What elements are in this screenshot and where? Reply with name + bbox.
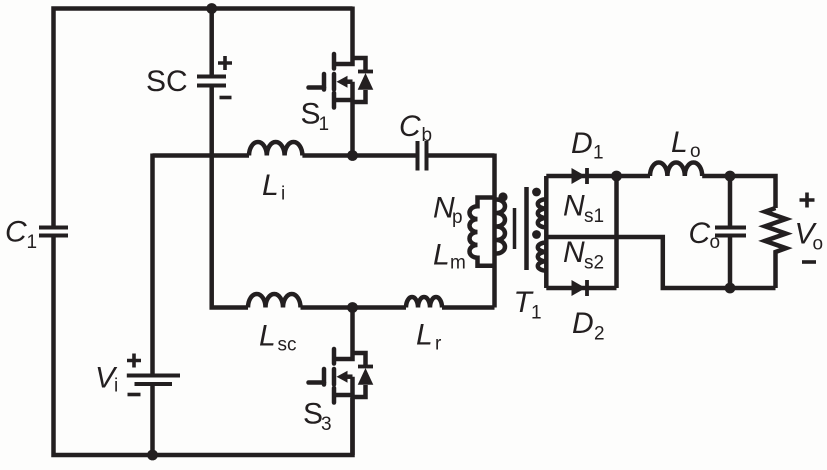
svg-text:L: L	[416, 319, 433, 352]
node D1 / link / Lo	[611, 171, 622, 182]
svg-text:D: D	[572, 307, 594, 340]
wire primary vertical	[492, 154, 497, 308]
dot primary polarity	[498, 192, 507, 201]
inductor Li	[249, 142, 302, 155]
dot Ns1 polarity	[532, 188, 541, 197]
inductor Lr	[406, 297, 442, 308]
wire D1-D2 link	[614, 176, 619, 288]
wire left line lower	[54, 238, 353, 456]
svg-text:C: C	[5, 216, 27, 249]
wire Vi vertical	[150, 154, 155, 374]
resistor Vo load	[765, 208, 786, 288]
capacitor Co	[715, 228, 746, 236]
wire secondary axis	[544, 176, 549, 288]
Vo minus	[802, 260, 816, 264]
svg-text:s1: s1	[584, 206, 604, 227]
SC minus	[220, 96, 232, 100]
Vi plus	[127, 354, 141, 368]
svg-text:SC: SC	[146, 65, 188, 98]
plus minus marks	[127, 56, 816, 395]
SC plus	[218, 56, 232, 70]
S1 body diode	[337, 73, 374, 90]
node Lsc / Lr / S3 drain	[347, 302, 358, 313]
node top rail / SC	[206, 3, 217, 14]
node S1 source / Li / Cb	[347, 150, 358, 161]
Vi minus	[128, 393, 141, 397]
battery Vi	[127, 376, 180, 385]
svg-text:sc: sc	[278, 335, 297, 356]
inductor Lo	[650, 162, 702, 176]
core bar long	[524, 187, 529, 270]
capacitor Co wires	[728, 176, 733, 226]
wire Cb to primary	[429, 153, 495, 158]
svg-text:o: o	[710, 232, 721, 253]
svg-text:b: b	[422, 125, 433, 146]
diode D1	[572, 168, 586, 184]
node Vi / bottom rail	[147, 450, 158, 461]
winding Lm loop	[469, 198, 494, 266]
winding Np	[497, 200, 506, 254]
wire D1 rail	[546, 174, 650, 179]
dot Ns2 polarity	[532, 230, 541, 239]
svg-text:L: L	[433, 239, 450, 272]
svg-text:D: D	[571, 127, 593, 160]
capacitor C1	[39, 228, 68, 236]
wire center tap	[546, 237, 775, 288]
wire Lsc rail	[301, 305, 407, 310]
wire D2 rail	[546, 286, 616, 291]
capacitor SC	[197, 77, 226, 86]
svg-text:C: C	[399, 110, 421, 143]
svg-text:2: 2	[594, 324, 605, 345]
svg-text:3: 3	[321, 414, 332, 435]
svg-text:i: i	[281, 184, 285, 205]
svg-text:C: C	[689, 217, 711, 250]
S3 body diode	[337, 368, 374, 385]
wire mid rail y=155	[153, 153, 250, 158]
inductor Lsc	[248, 294, 301, 308]
transistor S1	[309, 7, 374, 158]
transistor S3	[309, 306, 374, 455]
svg-text:1: 1	[593, 143, 604, 164]
winding Ns1	[538, 199, 547, 227]
wire Li to Cb	[302, 153, 417, 158]
svg-text:S: S	[301, 98, 321, 131]
winding Ns2	[538, 243, 547, 271]
wire Lr to primary	[442, 305, 495, 310]
svg-text:1: 1	[319, 114, 330, 135]
svg-text:N: N	[563, 190, 585, 223]
svg-text:L: L	[259, 320, 276, 353]
svg-text:o: o	[813, 234, 824, 255]
svg-text:s2: s2	[584, 253, 604, 274]
svg-text:1: 1	[531, 303, 542, 324]
wire Lo to right	[702, 176, 775, 208]
diode D2	[572, 280, 586, 296]
svg-text:m: m	[450, 253, 466, 274]
svg-text:1: 1	[27, 232, 38, 253]
wire SC line	[209, 9, 214, 75]
svg-text:L: L	[262, 169, 279, 202]
svg-text:L: L	[671, 126, 688, 159]
svg-text:N: N	[563, 236, 585, 269]
node Lo / Co / Vo	[725, 171, 736, 182]
Vo plus	[800, 193, 815, 208]
wire top rail	[54, 9, 353, 227]
svg-text:S: S	[303, 398, 323, 431]
svg-text:i: i	[114, 376, 118, 397]
svg-text:o: o	[690, 141, 701, 162]
core bar short	[513, 208, 517, 249]
capacitor Cb	[418, 141, 427, 171]
node Co / bottom	[725, 283, 736, 294]
svg-text:r: r	[435, 334, 442, 355]
wire Vi to bottom	[150, 386, 155, 455]
svg-text:p: p	[452, 207, 463, 228]
